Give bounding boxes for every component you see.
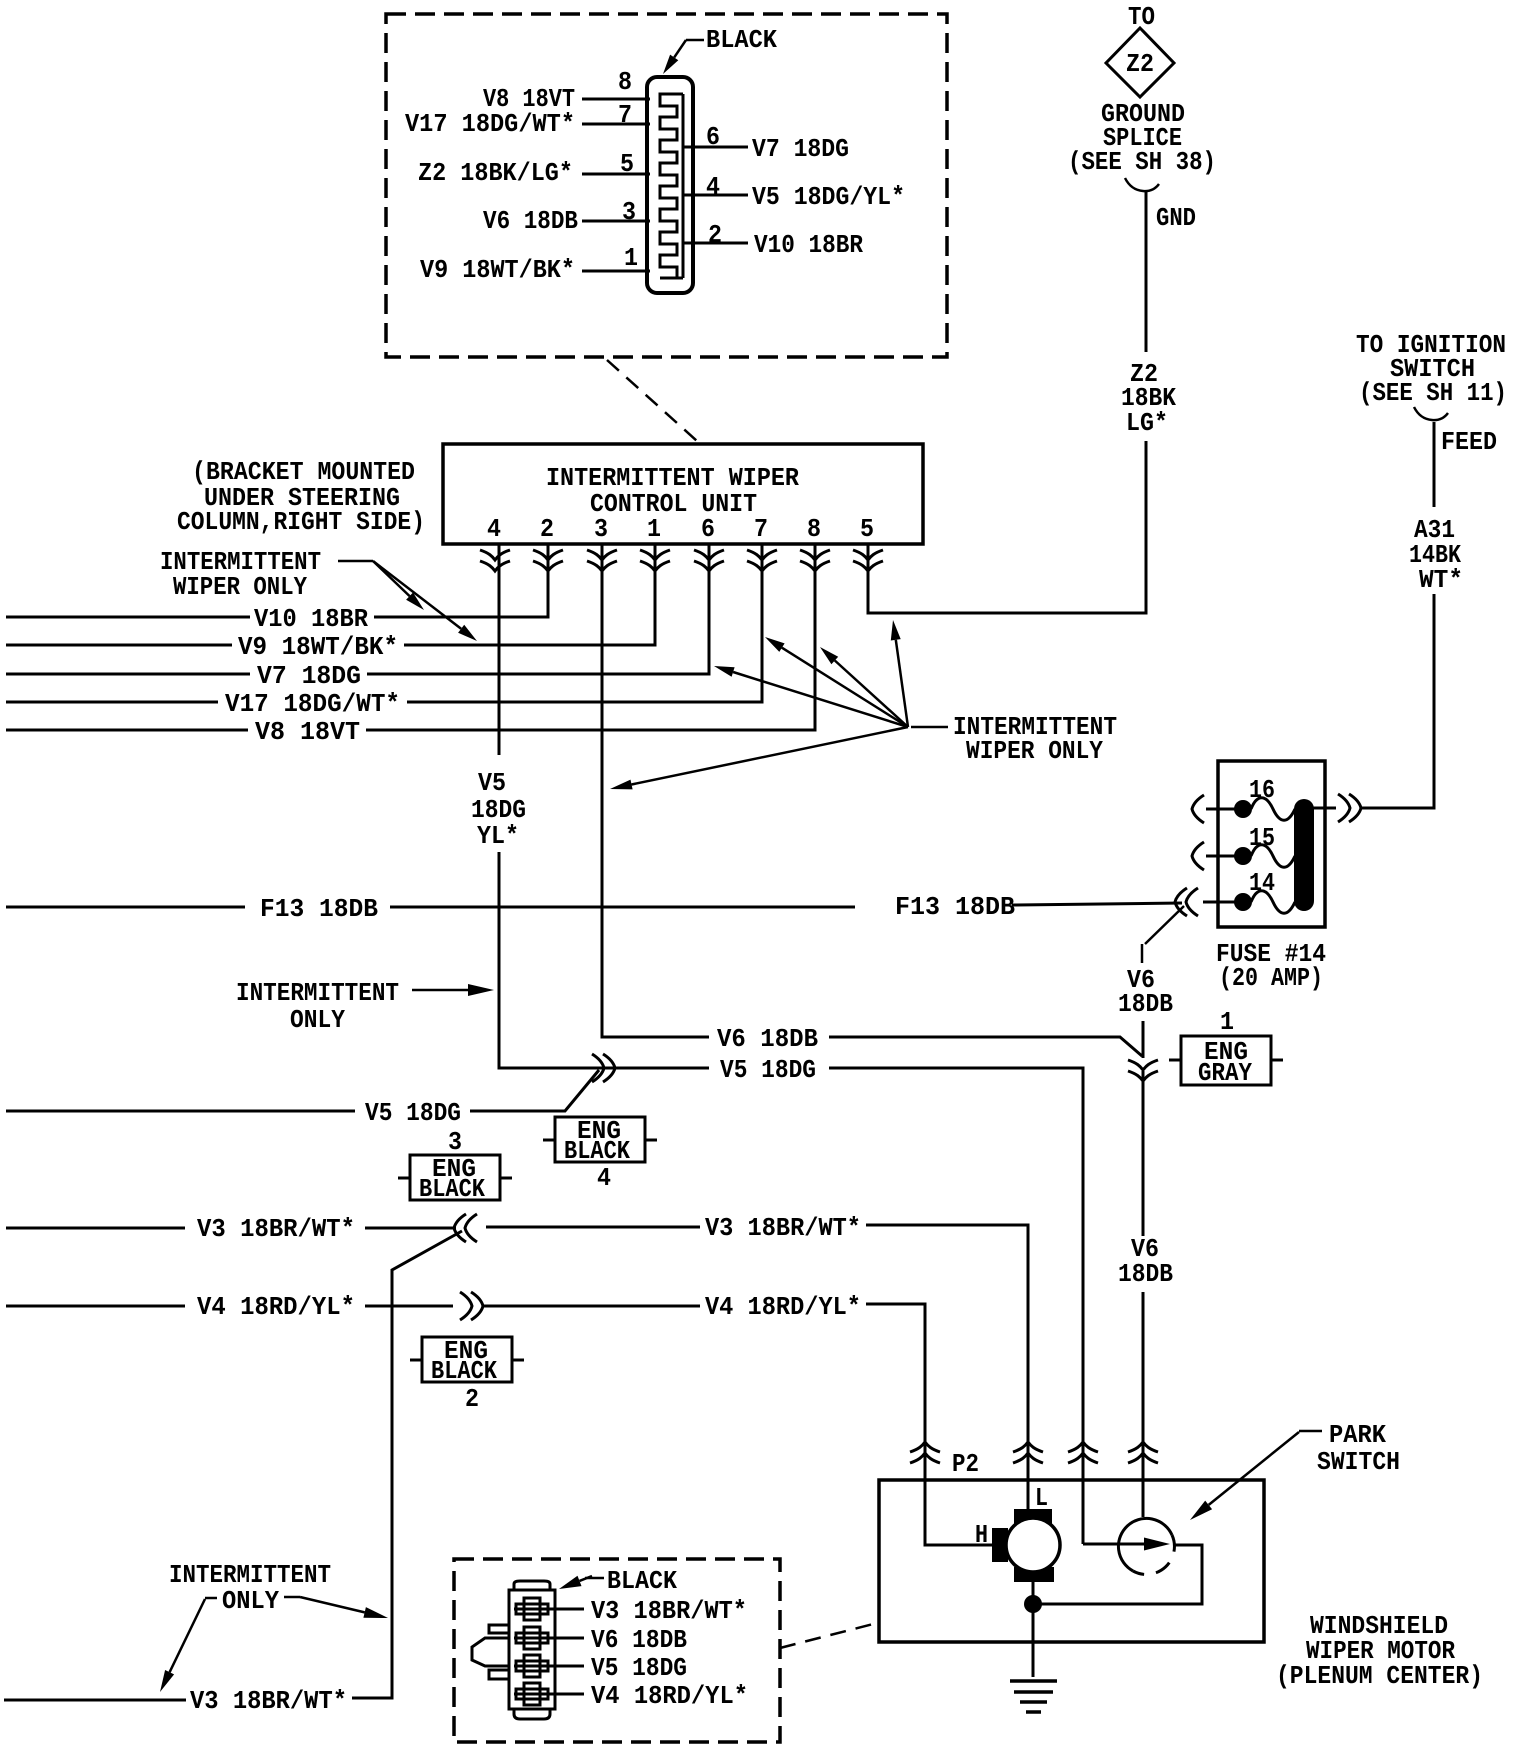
wire F13 18DB xyxy=(6,906,245,909)
wire V3 18BR/WT* xyxy=(6,1227,185,1230)
svg-text:CONTROL UNIT: CONTROL UNIT xyxy=(590,489,757,519)
dashed detail box for wiper motor connector xyxy=(454,1559,780,1742)
wire V6 18DB (U1 pin 3) xyxy=(602,544,709,1037)
svg-text:V17 18DG/WT*: V17 18DG/WT* xyxy=(225,689,400,719)
inline connector on V4 xyxy=(460,1292,472,1320)
inline connector on V6 wire xyxy=(1128,1060,1158,1070)
svg-text:V4 18RD/YL*: V4 18RD/YL* xyxy=(197,1292,355,1322)
C2 pin wire V3 18BR/WT* xyxy=(514,1608,584,1611)
C2 lock tab xyxy=(472,1638,509,1666)
dashed leader from C2 box to motor xyxy=(780,1623,877,1648)
svg-text:V3 18BR/WT*: V3 18BR/WT* xyxy=(705,1213,861,1243)
svg-text:16: 16 xyxy=(1249,775,1275,805)
svg-text:4: 4 xyxy=(487,514,501,544)
svg-text:(SEE SH 11): (SEE SH 11) xyxy=(1359,378,1507,408)
svg-text:F13 18DB: F13 18DB xyxy=(895,892,1015,922)
svg-text:V7 18DG: V7 18DG xyxy=(752,134,849,164)
svg-text:Z2 18BK/LG*: Z2 18BK/LG* xyxy=(418,158,573,188)
svg-text:WT*: WT* xyxy=(1419,565,1463,595)
arrow to wire V10 xyxy=(373,561,410,596)
wire A31 14BK WT* feed xyxy=(1433,422,1436,507)
svg-text:BLACK: BLACK xyxy=(607,1566,677,1596)
svg-text:PARK: PARK xyxy=(1329,1420,1386,1450)
dashed detail box for steering column connector xyxy=(386,14,947,357)
C2 small tab lower xyxy=(489,1670,509,1679)
svg-text:3: 3 xyxy=(448,1127,462,1157)
junction dot xyxy=(1024,1595,1042,1613)
svg-text:V6 18DB: V6 18DB xyxy=(483,206,578,236)
fuse 16 element xyxy=(1234,800,1252,818)
svg-text:8: 8 xyxy=(618,67,632,97)
svg-text:BLACK: BLACK xyxy=(431,1356,497,1386)
svg-text:ONLY: ONLY xyxy=(290,1005,345,1035)
connector C1 body xyxy=(647,77,693,293)
svg-text:V3 18BR/WT*: V3 18BR/WT* xyxy=(190,1686,347,1716)
svg-text:V5 18DG: V5 18DG xyxy=(591,1653,687,1683)
inline connector on V5 wire xyxy=(592,1054,604,1082)
wire V17 18DG/WT* (U1 pin 7) xyxy=(6,701,218,704)
svg-text:6: 6 xyxy=(701,514,715,544)
svg-text:V5 18DG: V5 18DG xyxy=(720,1055,816,1085)
connector C2 body xyxy=(514,1581,550,1590)
wire V5 18DG (left branch) xyxy=(6,1110,355,1113)
svg-text:15: 15 xyxy=(1249,823,1275,853)
svg-text:H: H xyxy=(975,1520,988,1550)
svg-text:14: 14 xyxy=(1249,868,1275,898)
wire V3 18BR/WT* intermittent branch xyxy=(4,1699,186,1702)
svg-text:GND: GND xyxy=(1156,203,1196,233)
svg-text:WIPER ONLY: WIPER ONLY xyxy=(966,736,1103,766)
svg-text:(PLENUM CENTER): (PLENUM CENTER) xyxy=(1276,1661,1483,1691)
svg-text:ONLY: ONLY xyxy=(222,1586,279,1616)
svg-text:SWITCH: SWITCH xyxy=(1317,1447,1400,1477)
arrow to pin7 wire xyxy=(782,648,908,727)
C2 pin wire V4 18RD/YL* xyxy=(514,1693,584,1696)
svg-text:V5 18DG/YL*: V5 18DG/YL* xyxy=(752,182,905,212)
inline connector on A31 at fuse output xyxy=(1338,794,1350,822)
wire V4 18RD/YL* xyxy=(6,1305,185,1308)
svg-text:V10 18BR: V10 18BR xyxy=(754,230,863,260)
fuse 14 element xyxy=(1234,893,1252,911)
inline connector on motor wire x=1028 xyxy=(1013,1453,1043,1463)
svg-text:F13 18DB: F13 18DB xyxy=(260,894,378,924)
wire Z2 18BK LG* from ground splice xyxy=(1145,190,1148,352)
svg-text:V9 18WT/BK*: V9 18WT/BK* xyxy=(238,632,398,662)
svg-text:4: 4 xyxy=(706,172,720,202)
svg-text:FEED: FEED xyxy=(1441,427,1497,457)
svg-text:2: 2 xyxy=(540,514,554,544)
svg-text:V7 18DG: V7 18DG xyxy=(257,661,361,691)
park switch feedback wire xyxy=(1041,1545,1202,1604)
motor brush L (top) xyxy=(1014,1509,1052,1524)
svg-text:1: 1 xyxy=(1220,1007,1234,1037)
svg-text:(SEE SH 38): (SEE SH 38) xyxy=(1068,147,1216,177)
svg-text:V3 18BR/WT*: V3 18BR/WT* xyxy=(197,1214,355,1244)
motor brush H (left) xyxy=(992,1528,1008,1562)
arrow to wire V9 xyxy=(373,561,461,629)
svg-text:7: 7 xyxy=(754,514,768,544)
svg-text:4: 4 xyxy=(597,1163,611,1193)
arrow to pin6 wire xyxy=(733,672,908,727)
motor ground wire xyxy=(1032,1582,1035,1677)
fuse 15 element xyxy=(1234,847,1252,865)
svg-text:BLACK: BLACK xyxy=(419,1174,485,1204)
svg-text:V4 18RD/YL*: V4 18RD/YL* xyxy=(705,1292,861,1322)
splice ENG BLACK 2 xyxy=(422,1337,512,1382)
inline connector on V3 xyxy=(465,1214,477,1242)
svg-text:V3 18BR/WT*: V3 18BR/WT* xyxy=(591,1596,747,1626)
svg-text:1: 1 xyxy=(647,514,661,544)
svg-text:COLUMN,RIGHT SIDE): COLUMN,RIGHT SIDE) xyxy=(177,507,425,537)
inline connector on F13 at fuse 14 xyxy=(1186,888,1198,916)
splice ENG BLACK 4 xyxy=(555,1117,645,1162)
fuse bus bar xyxy=(1294,799,1314,911)
dashed leader from detail box to control unit xyxy=(607,360,697,441)
svg-text:18DB: 18DB xyxy=(1118,989,1173,1019)
wire V8 18VT (U1 pin 8) xyxy=(6,729,248,732)
svg-text:V10 18BR: V10 18BR xyxy=(254,604,368,634)
svg-text:P2: P2 xyxy=(952,1449,979,1479)
svg-text:V5: V5 xyxy=(478,768,506,798)
hook under ignition switch ref xyxy=(1414,407,1448,420)
svg-text:WIPER ONLY: WIPER ONLY xyxy=(173,572,307,602)
motor armature circle xyxy=(1006,1518,1060,1572)
svg-text:L: L xyxy=(1035,1483,1048,1513)
wire V5 18DG YL* (U1 pin 4) xyxy=(498,544,501,755)
inline connector on motor wire x=1083 xyxy=(1068,1453,1098,1463)
park switch circle xyxy=(1118,1518,1172,1571)
inline connector on motor wire x=1143 xyxy=(1128,1453,1158,1463)
svg-text:INTERMITTENT: INTERMITTENT xyxy=(236,978,399,1008)
svg-text:8: 8 xyxy=(807,514,821,544)
park switch wiper arrow (V5 wire) xyxy=(1082,1480,1085,1544)
svg-text:GRAY: GRAY xyxy=(1198,1058,1252,1088)
arrow to pin8 wire xyxy=(835,661,908,728)
inline connector on motor wire x=925 xyxy=(910,1453,940,1463)
C2 small tab upper xyxy=(489,1625,509,1633)
intermittent wiper control unit U1 xyxy=(443,444,923,544)
svg-text:18DB: 18DB xyxy=(1118,1259,1173,1289)
arrow to pin3 wire xyxy=(632,727,909,785)
wire V7 18DG (U1 pin 6) xyxy=(6,673,250,676)
svg-text:V4 18RD/YL*: V4 18RD/YL* xyxy=(591,1681,748,1711)
svg-text:V5 18DG: V5 18DG xyxy=(365,1098,461,1128)
hook under ground splice xyxy=(1125,178,1159,191)
fuse block xyxy=(1218,761,1325,927)
svg-text:(20 AMP): (20 AMP) xyxy=(1219,963,1323,993)
wire V9 18WT/BK* (U1 pin 1) xyxy=(6,644,232,647)
motor brush common (bottom) xyxy=(1014,1567,1054,1582)
svg-text:V6 18DB: V6 18DB xyxy=(591,1625,687,1655)
C2 pin wire V5 18DG xyxy=(514,1665,584,1668)
wire V6 18DB from fuse to motor xyxy=(1145,906,1184,944)
svg-text:Z2: Z2 xyxy=(1126,49,1154,79)
wire V10 18BR (U1 pin 2) xyxy=(6,616,250,619)
fuse output to A31 xyxy=(1313,807,1325,810)
svg-text:YL*: YL* xyxy=(477,821,519,851)
svg-text:BLACK: BLACK xyxy=(564,1136,630,1166)
svg-text:2: 2 xyxy=(465,1384,479,1414)
fuse 16 left stub and connector xyxy=(1206,808,1243,811)
svg-text:V6 18DB: V6 18DB xyxy=(717,1024,818,1054)
windshield wiper motor box xyxy=(879,1480,1264,1642)
svg-text:1: 1 xyxy=(624,243,638,273)
svg-text:2: 2 xyxy=(708,220,722,250)
fuse 15 left stub and connector xyxy=(1206,855,1243,858)
arrow to pin5 wire xyxy=(896,640,908,727)
svg-text:V17 18DG/WT*: V17 18DG/WT* xyxy=(405,109,575,139)
svg-text:V9 18WT/BK*: V9 18WT/BK* xyxy=(420,255,575,285)
svg-text:5: 5 xyxy=(860,514,874,544)
svg-text:BLACK: BLACK xyxy=(706,25,777,55)
svg-text:LG*: LG* xyxy=(1126,408,1168,438)
svg-text:3: 3 xyxy=(594,514,608,544)
ground symbol xyxy=(1010,1679,1057,1683)
C2 pin wire V6 18DB xyxy=(514,1637,584,1640)
svg-text:V8 18VT: V8 18VT xyxy=(255,717,360,747)
